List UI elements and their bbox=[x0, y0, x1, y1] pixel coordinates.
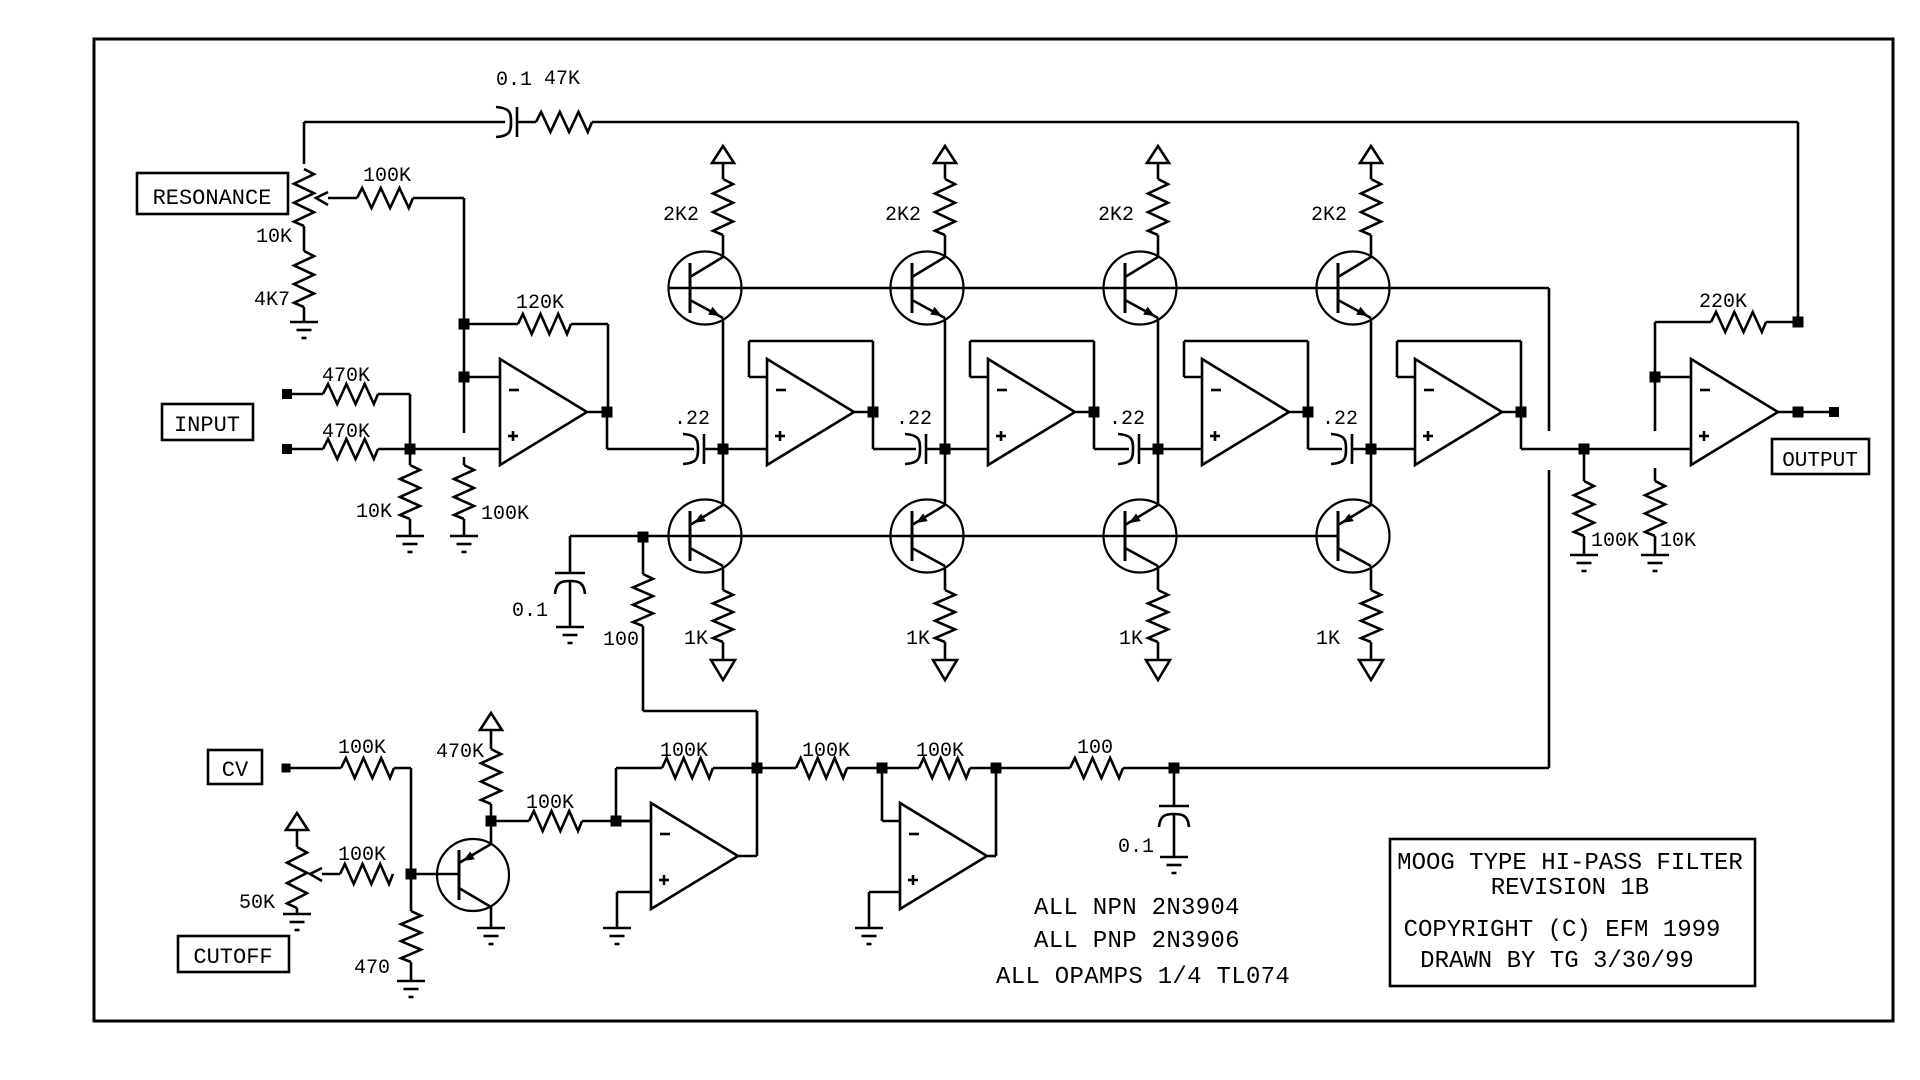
wire feedback top-left corner bbox=[304, 121, 505, 124]
svg-text:2K2: 2K2 bbox=[885, 204, 921, 227]
transistor Q_exp 2N3904 bbox=[437, 839, 509, 911]
svg-text:1K: 1K bbox=[1119, 628, 1143, 651]
wire input1 bbox=[291, 393, 323, 396]
transistor PNP Q4b bbox=[1317, 500, 1390, 573]
node minus B2 bbox=[877, 763, 888, 774]
resistor 1K stage 4 bbox=[1370, 566, 1373, 590]
resistor 470 bbox=[410, 874, 413, 911]
wire stage 2 down bbox=[944, 449, 947, 505]
svg-text:100K: 100K bbox=[338, 737, 386, 760]
node B2 out top bbox=[991, 763, 1002, 774]
svg-text:120K: 120K bbox=[516, 292, 564, 315]
resistor 2K2 stage 1 bbox=[722, 163, 725, 179]
minus arrow stage 2 bbox=[933, 660, 957, 680]
node U2 output bbox=[868, 407, 879, 418]
transistor NPN Q1a bbox=[669, 252, 742, 325]
wire 100K fb B1 left leg bbox=[615, 768, 618, 821]
wire plus B2 bbox=[869, 891, 900, 894]
wire emitter NPN 1 bbox=[722, 318, 725, 449]
CV box bbox=[208, 750, 262, 784]
svg-text:100: 100 bbox=[603, 629, 639, 652]
power arrow 50K bbox=[286, 813, 308, 830]
node buffer out bbox=[1579, 444, 1590, 455]
svg-text:10K: 10K bbox=[356, 501, 392, 524]
label RESONANCE box bbox=[137, 173, 288, 214]
svg-text:CV: CV bbox=[222, 758, 249, 783]
CUTOFF box bbox=[178, 936, 289, 972]
node U1 output bbox=[602, 407, 613, 418]
wire emitter NPN 3 bbox=[1157, 318, 1160, 449]
wire return right bbox=[1123, 767, 1549, 770]
node U3 output bbox=[1089, 407, 1100, 418]
input pin 1 bbox=[282, 389, 292, 399]
node minus U6 bbox=[1650, 372, 1661, 383]
potentiometer CUTOFF 50K bbox=[296, 830, 299, 847]
transistor NPN Q4a bbox=[1317, 252, 1390, 325]
node 220K right bbox=[1793, 317, 1804, 328]
node stage 2 bbox=[940, 444, 951, 455]
svg-text:10K: 10K bbox=[1660, 530, 1696, 553]
resistor 100 return bbox=[1070, 758, 1123, 778]
svg-text:1K: 1K bbox=[684, 628, 708, 651]
wire plus B1 bbox=[617, 891, 651, 894]
resistor 100K fb B1 bbox=[662, 758, 713, 778]
wire B1 output vertical bbox=[756, 711, 759, 856]
ground 0.1 bus bbox=[556, 626, 584, 629]
wire feedback top right bbox=[592, 121, 1798, 124]
ground 2N3904 bbox=[477, 927, 505, 930]
wiper arrow bbox=[316, 192, 328, 205]
wiper arrow 50K bbox=[310, 868, 322, 881]
capacitor 0.1 return bbox=[1173, 768, 1176, 806]
resistor 220K bbox=[1655, 321, 1711, 324]
svg-text:OUTPUT: OUTPUT bbox=[1782, 450, 1858, 473]
wire 100 to summer bbox=[643, 710, 757, 713]
svg-text:0.1: 0.1 bbox=[1118, 836, 1154, 859]
node junction 120K left bbox=[459, 319, 470, 330]
svg-text:.22: .22 bbox=[674, 408, 710, 431]
ground 0.1 return bbox=[1160, 856, 1188, 859]
ground 50K bbox=[283, 913, 311, 916]
transistor NPN Q2a bbox=[891, 252, 964, 325]
resistor 100K cutoff bbox=[340, 864, 393, 884]
transistor NPN Q3a bbox=[1104, 252, 1177, 325]
wire to final op-amp bbox=[1584, 448, 1691, 451]
resistor 100 bus bbox=[642, 537, 645, 574]
wire bus right vertical bbox=[1548, 288, 1551, 431]
power arrow stage 2 bbox=[934, 146, 956, 163]
capacitor 0.1 feedback bbox=[496, 107, 511, 137]
resistor 10K input bbox=[409, 449, 412, 465]
wire B2 output bbox=[988, 855, 996, 858]
ground 4K7 bbox=[290, 321, 318, 324]
capacitor 0.1 bus bbox=[569, 536, 572, 573]
minus arrow stage 4 bbox=[1359, 660, 1383, 680]
op-amp U5 feedback bbox=[1397, 340, 1521, 343]
wire inverting vertical bbox=[463, 324, 466, 377]
node bus-0.1 junction bbox=[638, 532, 649, 543]
svg-text:47K: 47K bbox=[544, 68, 580, 91]
OUTPUT box bbox=[1772, 439, 1869, 474]
wire minus leg U6 bbox=[1654, 322, 1657, 377]
wire fb B2 right bbox=[970, 767, 996, 770]
svg-text:100K: 100K bbox=[363, 165, 411, 188]
svg-text:2K2: 2K2 bbox=[663, 204, 699, 227]
wire minus leg B2 bbox=[881, 768, 884, 821]
node exp collector bbox=[486, 816, 497, 827]
resistor 2K2 stage 4 bbox=[1370, 163, 1373, 179]
wire U2 output bbox=[854, 411, 873, 414]
op-amp U3 bbox=[988, 359, 1075, 465]
svg-text:100K: 100K bbox=[338, 844, 386, 867]
wire 120K left bbox=[464, 323, 518, 326]
capacitor .22 stage 4 bbox=[1331, 434, 1346, 464]
wire emitter NPN 2 bbox=[944, 318, 947, 449]
svg-text:ALL PNP 2N3906: ALL PNP 2N3906 bbox=[1034, 928, 1240, 955]
resistor 470K input1 bbox=[323, 384, 378, 404]
resistor 100K fb B2 bbox=[882, 767, 919, 770]
node U4 output bbox=[1303, 407, 1314, 418]
wire plus U3 bbox=[945, 448, 988, 451]
node junction minus U1 bbox=[459, 372, 470, 383]
transistor PNP Q2b bbox=[891, 500, 964, 573]
resistor R 100K resonance bbox=[357, 188, 413, 208]
wire U6 output bbox=[1778, 411, 1798, 414]
wire CV corner bbox=[394, 767, 411, 770]
ground 100K input bbox=[450, 535, 478, 538]
capacitor .22 stage 3 bbox=[1118, 434, 1133, 464]
title box bbox=[1390, 839, 1755, 986]
svg-text:50K: 50K bbox=[239, 892, 275, 915]
svg-text:100K: 100K bbox=[660, 740, 708, 763]
ground 10K output bbox=[1641, 554, 1669, 557]
wire input2 to op-amp bbox=[378, 448, 500, 451]
svg-text:1K: 1K bbox=[906, 628, 930, 651]
wire exp to summer bbox=[582, 820, 651, 823]
wire 120K right leg bbox=[571, 323, 608, 326]
wire wiper to inverting node bbox=[413, 197, 464, 200]
svg-text:ALL OPAMPS 1/4 TL074: ALL OPAMPS 1/4 TL074 bbox=[996, 964, 1290, 991]
wire B1 to B2 bbox=[757, 767, 796, 770]
svg-text:.22: .22 bbox=[1322, 408, 1358, 431]
resistor 1K stage 2 bbox=[944, 566, 947, 590]
wire B2 to 100 bbox=[996, 767, 1070, 770]
wire U4 output bbox=[1289, 411, 1308, 414]
capacitor .22 stage 1 bbox=[683, 434, 698, 464]
resistor 1K stage 3 bbox=[1157, 566, 1160, 590]
svg-text:100: 100 bbox=[1077, 737, 1113, 760]
wire base 2N3904 bbox=[411, 873, 459, 876]
wire to node B2 bbox=[847, 767, 882, 770]
node stage 3 bbox=[1153, 444, 1164, 455]
svg-text:.22: .22 bbox=[896, 408, 932, 431]
CV pin bbox=[282, 764, 291, 773]
node stage 4 bbox=[1366, 444, 1377, 455]
svg-text:RESONANCE: RESONANCE bbox=[153, 186, 272, 211]
svg-text:100K: 100K bbox=[916, 740, 964, 763]
power arrow stage 1 bbox=[712, 146, 734, 163]
svg-text:COPYRIGHT (C) EFM 1999: COPYRIGHT (C) EFM 1999 bbox=[1404, 917, 1721, 944]
resistor 10K output bbox=[1654, 468, 1657, 481]
wire input2 bbox=[291, 448, 323, 451]
svg-text:100K: 100K bbox=[1591, 530, 1639, 553]
svg-text:2K2: 2K2 bbox=[1098, 204, 1134, 227]
resistor 100K CV bbox=[341, 758, 394, 778]
svg-text:INPUT: INPUT bbox=[174, 413, 240, 438]
wire U5 output bbox=[1502, 411, 1521, 414]
wire plus U2 bbox=[723, 448, 767, 451]
svg-text:DRAWN BY TG 3/30/99: DRAWN BY TG 3/30/99 bbox=[1420, 948, 1694, 975]
svg-text:1K: 1K bbox=[1316, 628, 1340, 651]
svg-text:470K: 470K bbox=[322, 365, 370, 388]
svg-text:10K: 10K bbox=[256, 226, 292, 249]
op-amp B2 bbox=[900, 803, 987, 909]
svg-text:220K: 220K bbox=[1699, 291, 1747, 314]
ground plus B1 bbox=[603, 927, 631, 930]
output pin bbox=[1829, 407, 1839, 417]
wire CV bbox=[290, 767, 341, 770]
resistor 2K2 stage 2 bbox=[944, 163, 947, 179]
wire U1 output bbox=[587, 411, 607, 414]
resistor 100K exp bbox=[529, 811, 582, 831]
svg-text:470: 470 bbox=[354, 957, 390, 980]
svg-text:4K7: 4K7 bbox=[254, 289, 290, 312]
node 0.1 return bbox=[1169, 763, 1180, 774]
wire input1 corner bbox=[378, 393, 410, 396]
wire minus stub U1 bbox=[464, 376, 500, 379]
wire stage 3 down bbox=[1157, 449, 1160, 505]
transistor PNP Q1b bbox=[669, 500, 742, 573]
svg-text:0.1: 0.1 bbox=[512, 600, 548, 623]
ground 470 bbox=[397, 980, 425, 983]
wire exp node right bbox=[491, 820, 529, 823]
wire plus U4 bbox=[1158, 448, 1202, 451]
op-amp U5 bbox=[1415, 359, 1502, 465]
wire U3 output bbox=[1075, 411, 1094, 414]
resistor 100K to ground U1 bbox=[454, 465, 474, 519]
svg-text:470K: 470K bbox=[322, 421, 370, 444]
svg-text:2K2: 2K2 bbox=[1311, 204, 1347, 227]
resistor 100K mid bbox=[796, 758, 847, 778]
op-amp U4 feedback bbox=[1184, 340, 1308, 343]
svg-text:REVISION 1B: REVISION 1B bbox=[1491, 875, 1649, 902]
svg-text:100K: 100K bbox=[526, 792, 574, 815]
op-amp B1 bbox=[651, 803, 738, 909]
op-amp U1 bbox=[500, 359, 587, 465]
transistor PNP Q3b bbox=[1104, 500, 1177, 573]
node U6 output bbox=[1793, 407, 1804, 418]
input pin 2 bbox=[282, 444, 292, 454]
svg-text:100K: 100K bbox=[802, 740, 850, 763]
svg-text:MOOG TYPE HI-PASS FILTER: MOOG TYPE HI-PASS FILTER bbox=[1397, 850, 1743, 877]
ground plus B2 bbox=[855, 927, 883, 930]
resistor 100K output bbox=[1583, 449, 1586, 481]
node U5 output bbox=[1516, 407, 1527, 418]
power arrow 470K bbox=[480, 713, 502, 730]
svg-text:0.1: 0.1 bbox=[496, 69, 532, 92]
resistor 470K input2 bbox=[323, 439, 378, 459]
svg-text:.22: .22 bbox=[1109, 408, 1145, 431]
svg-text:470K: 470K bbox=[436, 741, 484, 764]
minus arrow stage 1 bbox=[711, 660, 735, 680]
op-amp U4 bbox=[1202, 359, 1289, 465]
op-amp U2 feedback bbox=[749, 340, 873, 343]
node minus B1 bbox=[611, 816, 622, 827]
base bus top bbox=[668, 287, 1549, 290]
wire emitter NPN 4 bbox=[1370, 318, 1373, 449]
wire plus U5 bbox=[1371, 448, 1415, 451]
node cutoff junction bbox=[406, 869, 417, 880]
op-amp U6 bbox=[1691, 359, 1778, 465]
INPUT box bbox=[162, 404, 253, 440]
base bus bottom bbox=[570, 535, 1338, 538]
resistor 120K bbox=[518, 314, 571, 334]
op-amp U3 feedback bbox=[970, 340, 1094, 343]
op-amp U2 bbox=[767, 359, 854, 465]
resistor 4K7 bbox=[303, 226, 306, 251]
resistor 1K stage 1 bbox=[722, 566, 725, 590]
svg-text:ALL NPN 2N3904: ALL NPN 2N3904 bbox=[1034, 895, 1240, 922]
potentiometer RESONANCE 10K bbox=[294, 169, 314, 226]
wire stage 1 down bbox=[722, 449, 725, 505]
resistor 470K exp bbox=[490, 730, 493, 749]
node stage 1 bbox=[718, 444, 729, 455]
ground 100K output bbox=[1570, 554, 1598, 557]
svg-text:CUTOFF: CUTOFF bbox=[193, 945, 272, 970]
wire fb B1 right bbox=[713, 767, 757, 770]
wire stage 4 down bbox=[1370, 449, 1373, 505]
capacitor .22 stage 2 bbox=[905, 434, 920, 464]
minus arrow stage 3 bbox=[1146, 660, 1170, 680]
svg-text:100K: 100K bbox=[481, 503, 529, 526]
resistor 2K2 stage 3 bbox=[1157, 163, 1160, 179]
wire exp collector up bbox=[490, 821, 493, 844]
resistor 47K bbox=[536, 112, 592, 132]
ground 10K input bbox=[396, 535, 424, 538]
power arrow stage 4 bbox=[1360, 146, 1382, 163]
wire exp emitter down bbox=[490, 907, 493, 928]
node junction input bbox=[405, 444, 416, 455]
power arrow stage 3 bbox=[1147, 146, 1169, 163]
wire minus stub B1 bbox=[616, 820, 651, 823]
node B1 out top bbox=[752, 763, 763, 774]
